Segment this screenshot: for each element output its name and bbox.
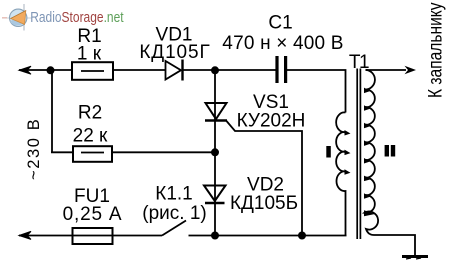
svg-text:~230 В: ~230 В xyxy=(25,118,43,180)
svg-text:КУ202Н: КУ202Н xyxy=(237,111,306,132)
svg-text:0,25 А: 0,25 А xyxy=(63,204,123,225)
wire: main vertical xyxy=(214,70,216,236)
thyristor VS1 xyxy=(205,103,227,121)
svg-text:C1: C1 xyxy=(268,13,292,34)
node B (junction R2 right) xyxy=(211,148,219,156)
fuse FU1 xyxy=(73,228,113,244)
node E (junction gate bottom) xyxy=(298,232,306,240)
resistor R1 xyxy=(72,62,113,80)
arrow left bottom xyxy=(19,231,31,239)
switch K1.1 xyxy=(162,221,186,236)
node C (junction top) xyxy=(211,66,219,74)
svg-text:К запальнику: К запальнику xyxy=(424,2,446,98)
logo icon xyxy=(2,4,32,31)
winding label I xyxy=(326,146,331,158)
node D (junction bottom center) xyxy=(211,232,219,240)
transformer core xyxy=(357,69,360,240)
svg-text:R2: R2 xyxy=(78,103,102,124)
ground xyxy=(402,257,428,260)
svg-text:К1.1: К1.1 xyxy=(155,184,192,205)
wire: bottom line xyxy=(19,235,347,237)
transformer T1 primary winding I xyxy=(336,112,350,235)
wire: R2 row xyxy=(51,151,215,153)
arrow left top xyxy=(19,66,31,74)
diode VD1 xyxy=(166,60,183,81)
wire: left vertical xyxy=(51,70,53,152)
svg-text:22 к: 22 к xyxy=(73,126,108,147)
capacitor C1 xyxy=(277,56,286,83)
svg-text:КД105Б: КД105Б xyxy=(230,193,298,214)
winding label II xyxy=(385,145,396,157)
svg-text:1 к: 1 к xyxy=(77,44,102,65)
diode VD2 xyxy=(204,186,226,204)
svg-text:470 н × 400 В: 470 н × 400 В xyxy=(222,33,343,54)
node A (junction top-left) xyxy=(47,66,55,74)
svg-text:КД105Г: КД105Г xyxy=(139,42,210,63)
resistor R2 xyxy=(73,146,112,162)
transformer T1 secondary winding II xyxy=(364,70,415,256)
svg-text:RadioStorage.net: RadioStorage.net xyxy=(30,9,124,26)
svg-text:(рис. 1): (рис. 1) xyxy=(142,203,206,224)
wire: top mains line xyxy=(19,70,346,113)
wire: VS1 gate xyxy=(227,121,303,236)
wire: output arrow xyxy=(366,69,407,71)
